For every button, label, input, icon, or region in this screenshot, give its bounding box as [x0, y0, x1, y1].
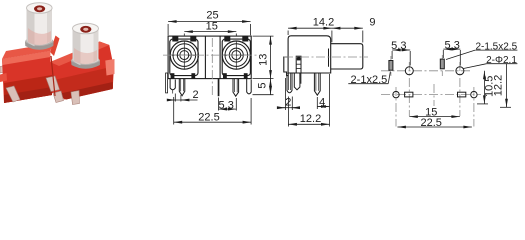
dim 15 (footprint) — [409, 116, 460, 118]
dim 25 — [168, 22, 251, 36]
dim 2 (front) — [169, 94, 198, 102]
dim 4 (side) — [317, 74, 329, 127]
svg-text:2-1x2.5: 2-1x2.5 — [351, 74, 388, 86]
right block body — [50, 42, 114, 100]
svg-text:4: 4 — [319, 96, 325, 108]
svg-text:5.3: 5.3 — [219, 100, 234, 112]
body outline — [168, 36, 251, 79]
dim 13 (front right) — [253, 36, 274, 79]
svg-text:2-1.5x2.5: 2-1.5x2.5 — [475, 41, 517, 52]
left signal pin — [179, 79, 185, 96]
centerlines rows — [381, 55, 481, 127]
left peg — [170, 79, 175, 90]
svg-text:2: 2 — [192, 89, 198, 101]
label 2-phi2.1 — [464, 64, 518, 69]
dim 12.2 (footprint) — [500, 64, 511, 108]
dim 15 — [184, 32, 236, 36]
dim 5.3 (front) — [219, 98, 237, 111]
svg-text:22.5: 22.5 — [420, 117, 441, 129]
label 2-1.5x2.5 — [446, 50, 517, 59]
dim 14.2 / 9 — [288, 28, 363, 42]
label 2-1x2.5 — [348, 72, 390, 84]
pins behind — [0, 65, 11, 74]
left plate — [170, 39, 198, 76]
jack circles left — [170, 41, 199, 70]
pins in front of blocks — [6, 86, 20, 102]
svg-text:2-Φ2.1: 2-Φ2.1 — [486, 55, 517, 66]
barrel — [331, 44, 363, 69]
centerlines front view — [163, 38, 257, 96]
pins front view — [166, 73, 252, 96]
middle thin pin — [218, 79, 220, 97]
dim 5.3 #1 — [392, 50, 410, 66]
dim 22.5 (footprint) — [397, 126, 472, 128]
pads — [389, 59, 477, 98]
right signal pin — [233, 79, 239, 97]
svg-text:14.2: 14.2 — [313, 16, 334, 28]
peg below body — [287, 73, 292, 93]
dim 22.5 (front) — [174, 97, 251, 125]
svg-text:15: 15 — [206, 21, 218, 33]
jack circles right — [222, 41, 251, 70]
right peg — [247, 79, 252, 94]
seam between blocks — [51, 56, 55, 96]
bracket tail below body — [294, 73, 300, 90]
dim 10.5 — [477, 71, 488, 104]
signal pin below — [314, 73, 320, 95]
dim 2 (side) — [280, 78, 297, 110]
dim 5.3 #2 — [443, 49, 460, 65]
svg-text:12.2: 12.2 — [300, 113, 321, 125]
bracket ladder — [296, 56, 301, 73]
body — [284, 36, 331, 76]
dim 5 (front right) — [253, 79, 274, 95]
left block body — [2, 43, 54, 59]
left bracket strip — [166, 73, 168, 93]
right cylinder — [71, 23, 100, 69]
svg-text:5.3: 5.3 — [391, 40, 406, 52]
svg-text:5.3: 5.3 — [445, 39, 460, 51]
side view centerline — [284, 56, 368, 58]
svg-text:13: 13 — [258, 54, 270, 66]
left cylinder — [25, 3, 54, 50]
svg-text:5: 5 — [257, 82, 269, 88]
plate tabs (black) — [171, 36, 249, 79]
svg-text:12.2: 12.2 — [492, 75, 504, 96]
svg-text:9: 9 — [369, 16, 375, 28]
middle divider — [204, 36, 206, 79]
dim 12.2 (side) — [288, 97, 329, 127]
svg-text:22.5: 22.5 — [198, 112, 219, 124]
right plate — [222, 39, 250, 76]
